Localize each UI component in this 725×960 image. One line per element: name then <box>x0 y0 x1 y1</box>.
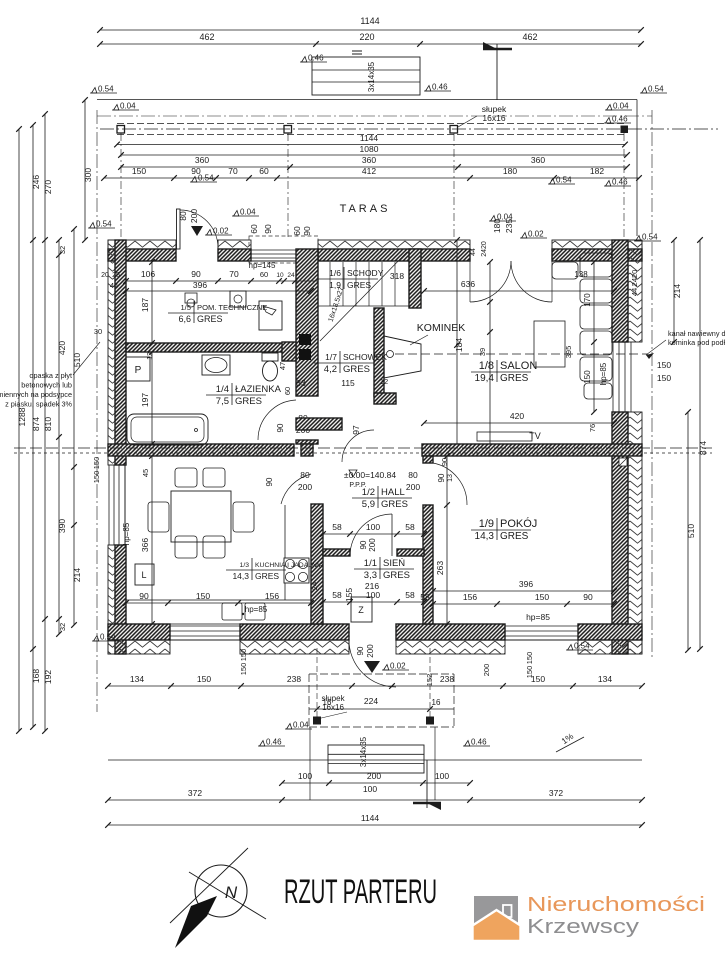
svg-text:25: 25 <box>112 272 120 279</box>
svg-text:Nieruchomości: Nieruchomości <box>527 894 705 916</box>
svg-text:150: 150 <box>239 649 248 662</box>
bottom line y760 <box>108 759 642 761</box>
duct dashed line to kominek <box>395 353 648 355</box>
svg-text:156: 156 <box>463 592 477 602</box>
level -0.46 left of stairs <box>300 54 327 63</box>
right roof overhang dashdot <box>651 110 653 660</box>
left wall window W2 <box>108 465 110 545</box>
svg-text:372: 372 <box>188 788 202 798</box>
dim 420 salon <box>424 422 614 424</box>
dims row under top wall <box>126 280 318 282</box>
kitchen chairs <box>175 468 197 487</box>
svg-text:32: 32 <box>58 246 67 254</box>
svg-text:70: 70 <box>229 269 239 279</box>
svg-text:100: 100 <box>435 771 449 781</box>
dim 366 kitchen vertical <box>151 456 153 624</box>
svg-text:z piasku, spadek 3%: z piasku, spadek 3% <box>5 400 72 409</box>
svg-text:155: 155 <box>344 588 354 602</box>
svg-text:GRES: GRES <box>500 373 529 384</box>
kominek flue black boxes <box>299 334 311 345</box>
svg-text:12: 12 <box>147 352 154 360</box>
bottom exterior wall segment A <box>108 624 170 640</box>
svg-text:366: 366 <box>140 538 150 552</box>
svg-text:150: 150 <box>535 592 549 602</box>
svg-text:90: 90 <box>437 473 446 482</box>
sofa cushions <box>580 253 612 277</box>
svg-text:kamiennych na podsypce: kamiennych na podsypce <box>0 390 72 399</box>
svg-text:14,3: 14,3 <box>232 571 249 581</box>
dimension top 1144 <box>100 29 641 31</box>
entry steps <box>328 745 424 773</box>
stairs treads <box>329 262 331 306</box>
svg-text:90: 90 <box>583 592 593 602</box>
svg-text:1/4: 1/4 <box>216 384 229 395</box>
bottom exterior wall segment C <box>396 624 505 640</box>
svg-text:3,3: 3,3 <box>364 570 377 581</box>
svg-text:100: 100 <box>298 771 312 781</box>
bottom posts <box>313 717 321 725</box>
top exterior wall segment B <box>218 240 251 249</box>
dimension top 462-220-462 <box>100 43 641 45</box>
pokoj door arc <box>433 463 467 505</box>
right exterior wall lower <box>612 412 628 654</box>
svg-text:197: 197 <box>140 393 150 407</box>
svg-text:58: 58 <box>420 592 430 602</box>
svg-text:70: 70 <box>228 166 238 176</box>
wall I5 schody/salon upper <box>409 249 421 308</box>
kitchen L box <box>135 564 154 585</box>
svg-text:263: 263 <box>435 561 445 575</box>
bottom dim row 1 <box>108 685 642 687</box>
svg-text:7,5: 7,5 <box>216 396 229 407</box>
kitchen table <box>171 491 231 542</box>
room label 1/1 SIEN <box>354 557 414 581</box>
svg-text:GRES: GRES <box>197 314 223 324</box>
section flag bottom <box>413 760 441 810</box>
svg-text:0.02: 0.02 <box>528 230 544 239</box>
section flag top <box>483 42 512 100</box>
svg-text:2420: 2420 <box>481 241 488 257</box>
svg-text:200: 200 <box>482 664 491 677</box>
svg-text:60: 60 <box>249 224 259 234</box>
svg-text:hp=85: hp=85 <box>245 605 268 614</box>
small appliance under door D1 <box>185 293 197 303</box>
svg-text:874: 874 <box>698 441 708 455</box>
svg-text:412: 412 <box>362 166 376 176</box>
techniczne boiler <box>259 301 282 330</box>
logo gray square <box>474 896 518 940</box>
svg-text:0.02: 0.02 <box>390 662 406 671</box>
svg-text:300: 300 <box>83 168 93 182</box>
room label 1/7 SCHOWEK <box>314 351 387 375</box>
svg-text:30: 30 <box>94 327 102 336</box>
svg-text:N: N <box>225 883 238 902</box>
svg-text:GRES: GRES <box>381 499 408 510</box>
door D1 opening lines <box>175 240 177 261</box>
terrace axis dash-dot line <box>100 128 718 130</box>
svg-text:KOMINEK: KOMINEK <box>417 322 465 334</box>
eaves outline right <box>636 100 638 237</box>
svg-text:58: 58 <box>332 590 342 600</box>
svg-text:224: 224 <box>364 696 378 706</box>
svg-text:90: 90 <box>302 226 312 236</box>
svg-text:1144: 1144 <box>360 16 379 26</box>
svg-text:SCHOWEK: SCHOWEK <box>343 352 387 362</box>
slupek 16x16 posts on terrace <box>117 126 125 134</box>
hall-kitchen door arc <box>281 474 311 504</box>
svg-text:90: 90 <box>276 423 285 432</box>
coffee table salon <box>534 321 565 367</box>
bottom exterior wall segment D <box>578 624 642 640</box>
svg-text:hp=85: hp=85 <box>599 362 608 385</box>
wall I3 kitchen/hall vertical <box>311 504 323 624</box>
Z box sien <box>351 597 372 622</box>
svg-text:192: 192 <box>43 670 53 684</box>
svg-text:238: 238 <box>440 674 454 684</box>
svg-text:13: 13 <box>447 474 454 482</box>
svg-text:GRES: GRES <box>235 396 262 407</box>
tv stand <box>477 432 532 441</box>
wall I4 middle horizontal east <box>422 444 642 456</box>
compass circle <box>195 865 247 917</box>
svg-text:58: 58 <box>405 590 415 600</box>
svg-text:POM. TECHNICZNE: POM. TECHNICZNE <box>197 303 267 312</box>
svg-text:0.46: 0.46 <box>308 54 324 63</box>
kitchen east counter <box>284 505 286 558</box>
svg-text:0.54: 0.54 <box>556 176 572 185</box>
svg-text:44: 44 <box>110 281 118 290</box>
svg-text:0.46: 0.46 <box>266 738 282 747</box>
svg-text:58: 58 <box>332 522 342 532</box>
svg-text:KUCHNIA I JADALNIA: KUCHNIA I JADALNIA <box>255 562 324 569</box>
window W1 dashed blind box <box>249 236 318 263</box>
svg-text:180: 180 <box>492 219 502 233</box>
svg-text:200: 200 <box>366 644 375 658</box>
svg-text:0.54: 0.54 <box>98 85 114 94</box>
kitchen stove <box>284 558 309 583</box>
svg-text:150: 150 <box>132 166 146 176</box>
svg-text:0.54: 0.54 <box>100 633 116 642</box>
door D1 leaf <box>177 209 181 249</box>
svg-text:24: 24 <box>310 582 319 590</box>
svg-text:462: 462 <box>199 32 214 42</box>
svg-text:60: 60 <box>292 226 302 236</box>
room label 1/3 KUCHNIA I JADALNIA <box>226 558 324 581</box>
svg-text:1080: 1080 <box>360 144 379 154</box>
svg-text:510: 510 <box>686 524 696 538</box>
svg-text:3x14x35: 3x14x35 <box>367 61 376 92</box>
svg-text:L: L <box>141 570 146 580</box>
svg-text:opaska z płyt: opaska z płyt <box>29 371 72 380</box>
svg-text:SCHODY: SCHODY <box>347 268 384 278</box>
top exterior wall segment C <box>318 240 470 249</box>
svg-text:32: 32 <box>58 623 67 631</box>
svg-text:150: 150 <box>525 652 534 665</box>
svg-text:ŁAZIENKA: ŁAZIENKA <box>235 384 282 395</box>
svg-text:6,6: 6,6 <box>178 314 191 324</box>
fireplace kominek <box>384 336 421 378</box>
svg-text:90: 90 <box>359 540 368 549</box>
door D1 swing arc <box>180 210 218 248</box>
svg-text:150: 150 <box>657 360 671 370</box>
kitchen sink <box>222 603 242 620</box>
svg-text:810: 810 <box>43 417 53 431</box>
svg-text:220: 220 <box>359 32 374 42</box>
sien stubs <box>323 549 350 556</box>
svg-text:GRES: GRES <box>255 571 279 581</box>
svg-text:150: 150 <box>92 471 101 484</box>
svg-text:2420: 2420 <box>630 270 639 287</box>
svg-text:152: 152 <box>425 674 434 687</box>
level marks above terrace <box>190 174 217 183</box>
svg-text:80: 80 <box>178 211 188 221</box>
svg-text:100: 100 <box>366 590 380 600</box>
toilet nook stub <box>282 342 296 361</box>
svg-text:SIEŃ: SIEŃ <box>383 558 405 569</box>
svg-text:235: 235 <box>504 219 514 233</box>
svg-text:16x16: 16x16 <box>482 113 505 123</box>
left margin dim lines <box>18 129 20 731</box>
svg-text:44: 44 <box>630 288 639 296</box>
right margin dims <box>673 240 675 342</box>
left exterior wall upper <box>108 240 115 465</box>
bathtub <box>127 414 208 445</box>
level 0.54 building corner right <box>634 233 661 242</box>
right wall vent square <box>619 458 627 466</box>
room label 1/8 SALON <box>471 360 537 384</box>
svg-text:0.04: 0.04 <box>293 721 309 730</box>
logo orange house <box>473 910 521 941</box>
svg-text:80: 80 <box>408 470 418 480</box>
svg-text:150: 150 <box>239 663 248 676</box>
svg-text:396: 396 <box>193 280 207 290</box>
svg-text:60: 60 <box>260 270 268 279</box>
wall I4 pier <box>301 444 313 456</box>
svg-text:0.54: 0.54 <box>648 85 664 94</box>
left roof overhang dashdot <box>96 110 98 712</box>
kitchen window W4 <box>170 625 240 627</box>
svg-text:462: 462 <box>522 32 537 42</box>
post axis dashed verticals <box>120 133 122 240</box>
P shaft box <box>126 357 150 381</box>
dim 184 fireplace vertical <box>456 240 458 444</box>
french door D2 arcs <box>470 261 511 302</box>
svg-text:150: 150 <box>197 674 211 684</box>
compass cross lines <box>170 848 248 923</box>
entry level triangle <box>364 661 380 673</box>
svg-text:138: 138 <box>574 270 588 279</box>
svg-text:1/7: 1/7 <box>325 352 337 362</box>
svg-text:90: 90 <box>263 224 273 234</box>
room label 1/4 LAZIENKA <box>206 383 282 407</box>
bottom dim 16 224 16 <box>309 708 454 710</box>
svg-text:360: 360 <box>362 155 376 165</box>
svg-text:90: 90 <box>139 591 149 601</box>
canopy dashed rectangle <box>309 673 454 675</box>
post axes dashed verticals bottom <box>316 648 318 722</box>
svg-text:1144: 1144 <box>360 133 379 143</box>
svg-text:0.54: 0.54 <box>574 642 590 651</box>
dim 396 techniczne <box>126 290 311 292</box>
terrace level 0.02 left door <box>191 226 203 236</box>
svg-text:GRES: GRES <box>343 364 370 375</box>
wall I6 pokoj west <box>423 456 433 463</box>
bottom dim 1144 <box>108 824 642 826</box>
svg-text:TV: TV <box>529 431 541 441</box>
dim 263 pokoj vertical <box>446 456 448 624</box>
dim 197 lazienka vertical <box>151 352 153 444</box>
svg-text:1/3: 1/3 <box>240 562 250 569</box>
svg-text:360: 360 <box>195 155 209 165</box>
svg-text:150: 150 <box>583 370 592 384</box>
svg-text:P.P.P.: P.P.P. <box>349 482 366 489</box>
svg-text:kanał nawiewny d: kanał nawiewny d <box>668 329 725 338</box>
svg-text:420: 420 <box>57 341 67 355</box>
svg-text:390: 390 <box>57 519 67 533</box>
svg-text:106: 106 <box>141 269 155 279</box>
svg-text:200: 200 <box>189 209 199 223</box>
svg-text:hp=85: hp=85 <box>122 522 131 545</box>
svg-text:636: 636 <box>461 279 475 289</box>
svg-text:0.04: 0.04 <box>240 208 256 217</box>
svg-text:150: 150 <box>92 457 101 470</box>
svg-text:1144: 1144 <box>361 813 380 823</box>
svg-text:HALL: HALL <box>381 487 405 498</box>
svg-text:33: 33 <box>296 378 306 388</box>
terrace dim row 150 90 70 60 412 180 182 <box>104 177 639 179</box>
svg-text:betonowych lub: betonowych lub <box>21 381 72 390</box>
svg-text:16: 16 <box>432 698 441 707</box>
svg-text:76: 76 <box>588 424 597 432</box>
schowek door arc <box>342 430 374 462</box>
dim 187 techniczne vertical <box>151 262 153 343</box>
svg-text:214: 214 <box>72 568 82 582</box>
entry side reference lines <box>309 727 311 800</box>
svg-text:0.46: 0.46 <box>471 738 487 747</box>
svg-text:100: 100 <box>363 784 377 794</box>
svg-text:0.04: 0.04 <box>120 102 136 111</box>
svg-text:150: 150 <box>196 591 210 601</box>
wall I8 schowek south <box>296 418 342 430</box>
svg-text:hp=85: hp=85 <box>526 612 550 622</box>
svg-text:182: 182 <box>590 166 604 176</box>
svg-text:RZUT PARTERU: RZUT PARTERU <box>284 873 437 911</box>
svg-text:0.46: 0.46 <box>612 178 628 187</box>
svg-text:20: 20 <box>101 272 109 279</box>
terrace dim 1144 <box>117 144 625 146</box>
room label 1/5 POM. TECHNICZNE <box>168 301 267 324</box>
svg-text:1/1: 1/1 <box>364 558 377 569</box>
svg-text:10: 10 <box>276 272 284 279</box>
svg-text:200: 200 <box>368 538 377 552</box>
wall I1 techniczne/lazienka <box>126 343 294 352</box>
logo chimney <box>503 905 512 917</box>
svg-text:1288: 1288 <box>17 407 27 426</box>
svg-text:kominka pod podł: kominka pod podł <box>668 338 725 347</box>
svg-text:GRES: GRES <box>383 570 410 581</box>
svg-text:0.46: 0.46 <box>432 83 448 92</box>
terrace dim 1080 <box>121 154 627 156</box>
svg-text:150: 150 <box>531 674 545 684</box>
svg-text:60: 60 <box>283 387 292 395</box>
lazienka door gap arc <box>258 400 296 440</box>
level -0.54 top margins <box>640 85 667 94</box>
svg-text:90: 90 <box>191 166 201 176</box>
top overhang dashdot <box>97 115 652 117</box>
svg-text:168: 168 <box>31 669 41 683</box>
svg-text:GRES: GRES <box>347 280 371 290</box>
techniczne washer <box>230 291 246 307</box>
kitchen dims 90 150 156 <box>126 602 311 604</box>
svg-text:POKÓJ: POKÓJ <box>500 517 537 530</box>
svg-text:14,3: 14,3 <box>475 531 495 542</box>
svg-text:874: 874 <box>31 417 41 431</box>
toilet <box>262 353 278 361</box>
terrace slab dashed edges <box>117 123 625 125</box>
svg-text:58: 58 <box>405 522 415 532</box>
svg-text:1/8: 1/8 <box>479 360 494 372</box>
svg-text:115: 115 <box>341 378 355 388</box>
sofa column dims <box>593 262 595 412</box>
wall I5 lower <box>374 308 384 396</box>
svg-text:TARAS: TARAS <box>340 203 391 215</box>
svg-text:90: 90 <box>440 458 449 466</box>
svg-text:420: 420 <box>510 411 524 421</box>
svg-text:GRES: GRES <box>500 531 529 542</box>
svg-text:187: 187 <box>140 298 150 312</box>
sofa arm top <box>552 262 578 279</box>
wall I4 middle horizontal west <box>108 444 294 456</box>
entry door D3 swing <box>349 640 396 687</box>
stairs diagonal break <box>320 252 407 341</box>
svg-text:90: 90 <box>265 477 274 486</box>
svg-text:150: 150 <box>657 373 671 383</box>
svg-text:134: 134 <box>130 674 144 684</box>
svg-text:396: 396 <box>519 579 533 589</box>
dim 138 170 sofa wall <box>489 262 491 444</box>
svg-text:90: 90 <box>191 269 201 279</box>
eaves outline top <box>97 99 637 101</box>
svg-text:0.04: 0.04 <box>613 102 629 111</box>
svg-text:200: 200 <box>406 482 420 492</box>
svg-text:1/6: 1/6 <box>329 268 341 278</box>
svg-text:1/5: 1/5 <box>180 303 191 312</box>
svg-text:510: 510 <box>72 353 82 367</box>
bottom dim 100 200 100 <box>282 782 470 784</box>
bottom dim 372 row <box>108 799 642 801</box>
svg-text:hp=145: hp=145 <box>249 261 276 270</box>
svg-text:372: 372 <box>549 788 563 798</box>
washbasin <box>202 355 230 375</box>
svg-text:19,4: 19,4 <box>475 373 495 384</box>
pokoj window W5 <box>505 625 578 627</box>
svg-text:238: 238 <box>287 674 301 684</box>
svg-text:270: 270 <box>43 180 53 194</box>
svg-text:60: 60 <box>259 166 269 176</box>
compass needle <box>175 896 217 948</box>
svg-text:97: 97 <box>351 425 361 435</box>
svg-text:170: 170 <box>583 293 592 307</box>
svg-text:184: 184 <box>454 338 464 352</box>
svg-text:24: 24 <box>287 272 295 279</box>
svg-text:395: 395 <box>564 346 573 359</box>
svg-text:246: 246 <box>31 175 41 189</box>
svg-text:180: 180 <box>503 166 517 176</box>
svg-text:156: 156 <box>265 591 279 601</box>
right wall window W3 <box>612 342 614 412</box>
salon cross dashed lines <box>14 447 712 449</box>
svg-text:44: 44 <box>470 248 477 256</box>
